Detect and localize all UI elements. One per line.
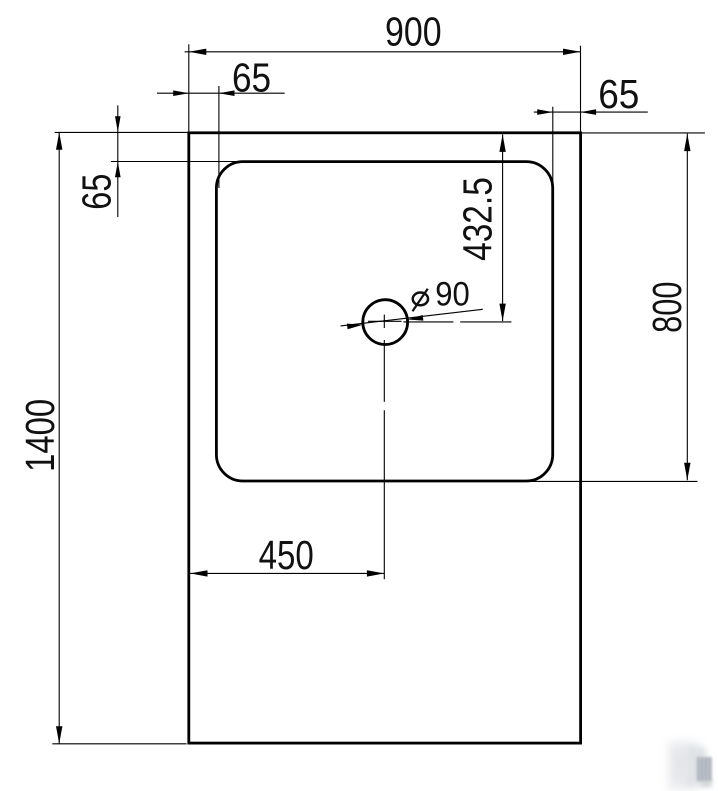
svg-text:900: 900 xyxy=(385,8,442,54)
svg-text:65: 65 xyxy=(598,71,639,117)
svg-text:450: 450 xyxy=(259,532,314,578)
svg-text:65: 65 xyxy=(73,174,119,210)
svg-text:800: 800 xyxy=(644,282,690,333)
svg-text:1400: 1400 xyxy=(17,399,63,472)
svg-text:90: 90 xyxy=(435,275,470,313)
svg-text:432.5: 432.5 xyxy=(455,177,501,261)
svg-text:65: 65 xyxy=(232,55,271,101)
